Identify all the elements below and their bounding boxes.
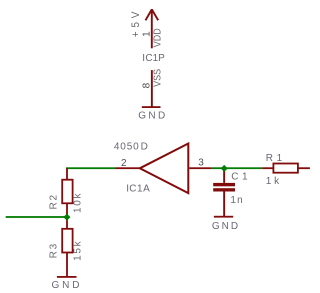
- junction node R2/R3: [63, 214, 70, 221]
- svg-text:GND: GND: [212, 221, 240, 232]
- resistor R3 body: [62, 229, 72, 253]
- svg-text:IC: IC: [142, 53, 153, 64]
- svg-text:R3: R3: [49, 242, 60, 258]
- resistor R1 left pin: [262, 167, 273, 169]
- svg-text:VDD: VDD: [152, 28, 164, 47]
- svg-text:1n: 1n: [230, 195, 244, 206]
- ground symbol (top): [142, 106, 161, 108]
- resistor R1 right pin: [298, 167, 310, 169]
- svg-text:R1: R1: [266, 153, 286, 164]
- supply symbol +5V (arrow): [146, 9, 159, 48]
- pin 2 stub: [116, 167, 141, 169]
- resistor R1 body: [273, 164, 298, 173]
- resistor R2 body: [62, 180, 72, 204]
- svg-text:GND: GND: [52, 280, 83, 291]
- svg-text:D: D: [141, 141, 148, 152]
- resistor R3 top pin: [66, 217, 68, 229]
- svg-text:15k: 15k: [73, 240, 84, 261]
- junction node at C1: [221, 165, 228, 172]
- svg-text:3: 3: [198, 158, 204, 169]
- svg-text:GND: GND: [138, 111, 167, 122]
- op-amp buffer gate IC1A (4050 triangle): [140, 144, 189, 194]
- capacitor C1 top pin: [223, 169, 225, 183]
- ground symbol (C1): [214, 216, 233, 218]
- capacitor C1 top plate: [213, 183, 235, 186]
- svg-text:1P: 1P: [153, 53, 166, 64]
- svg-text:VSS: VSS: [152, 68, 164, 86]
- svg-text:IC: IC: [126, 184, 137, 195]
- capacitor C1 bottom pin: [223, 192, 225, 217]
- resistor R3 bottom pin: [66, 253, 68, 277]
- svg-text:R2: R2: [49, 193, 60, 209]
- ground symbol (R3): [57, 276, 77, 278]
- pin 3 stub: [189, 167, 212, 169]
- svg-text:+5V: +5V: [129, 8, 142, 37]
- wire: gate input to R2 corner: [66, 167, 115, 169]
- svg-text:4050: 4050: [114, 141, 140, 152]
- wire: left edge to R2/R3 junction: [6, 216, 67, 218]
- capacitor C1 bottom plate: [213, 188, 235, 191]
- wire: gate output to R1: [212, 167, 262, 169]
- svg-text:10k: 10k: [73, 192, 84, 213]
- resistor R2 bottom pin: [66, 203, 68, 217]
- svg-text:C1: C1: [231, 171, 251, 182]
- resistor R2 top pin: [66, 168, 68, 180]
- IC1P VSS pin wire: [151, 70, 153, 107]
- svg-text:1A: 1A: [137, 184, 150, 195]
- svg-text:1k: 1k: [266, 176, 282, 187]
